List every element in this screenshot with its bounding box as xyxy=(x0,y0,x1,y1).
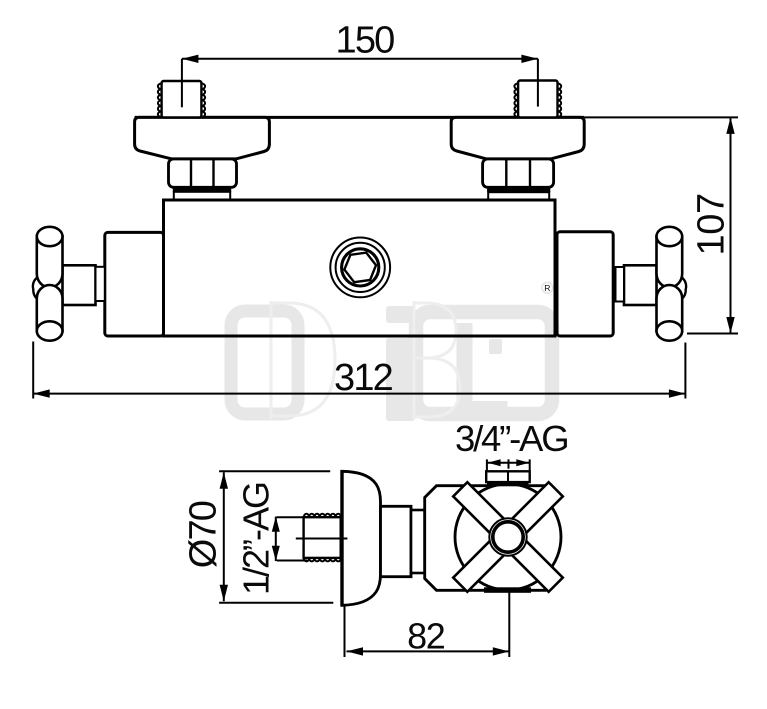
dimension O70 xyxy=(183,471,334,602)
watermark letter i dot xyxy=(386,306,415,323)
dimension 3/4-AG xyxy=(455,418,567,470)
centerline stud right xyxy=(537,59,539,107)
wire wall line xyxy=(135,116,585,119)
cross handle blade B xyxy=(453,482,563,592)
dimension 312 xyxy=(33,342,685,400)
handle right hub xyxy=(616,265,687,305)
thread 3/4 stub xyxy=(486,471,530,482)
valve housing (side) xyxy=(425,486,545,591)
valve cap left xyxy=(105,232,164,336)
escutcheon bell xyxy=(342,471,381,605)
joint band top xyxy=(487,482,529,487)
valve cap right xyxy=(557,232,613,336)
watermark letter i bar xyxy=(386,338,415,421)
svg-text:312: 312 xyxy=(334,357,393,399)
cross handle blade A xyxy=(453,482,563,592)
cross handle hub xyxy=(489,518,526,555)
thread 1/2 stub xyxy=(304,514,341,562)
screw hex socket xyxy=(344,253,376,283)
svg-text:82: 82 xyxy=(407,616,445,657)
watermark apostrophe xyxy=(489,339,502,354)
escutcheon wall face xyxy=(340,470,343,606)
rosette circle xyxy=(455,484,561,590)
washer band left xyxy=(173,187,231,192)
screw cap circles xyxy=(330,238,390,298)
nut right xyxy=(483,159,554,187)
dimension 1/2-AG xyxy=(235,483,307,595)
watermark thin letter D xyxy=(271,301,335,419)
sleeve step xyxy=(411,510,425,573)
svg-text:1/2”-AG: 1/2”-AG xyxy=(235,483,276,595)
flange left xyxy=(135,117,270,158)
washer band right xyxy=(487,188,550,193)
body xyxy=(164,200,556,336)
watermark registered mark xyxy=(542,282,553,293)
washer right xyxy=(488,192,549,200)
sleeve cylinder xyxy=(381,506,412,576)
watermark logo frame 2 xyxy=(416,312,552,414)
watermark thin letter B xyxy=(414,301,460,419)
svg-text:150: 150 xyxy=(335,20,394,62)
handle right lower bar xyxy=(657,285,683,341)
handle left hub xyxy=(33,265,105,305)
handle right upper bar xyxy=(657,227,683,288)
flange right xyxy=(451,117,584,158)
nut left xyxy=(169,159,237,187)
dimension 107 xyxy=(584,117,738,333)
svg-text:R: R xyxy=(544,283,550,293)
svg-text:3/4”-AG: 3/4”-AG xyxy=(455,418,567,459)
joint band bottom xyxy=(484,587,531,593)
dimension 150 xyxy=(182,20,538,64)
watermark logo frame 1 xyxy=(231,311,298,414)
handle left upper bar xyxy=(37,227,63,288)
handle left lower bar xyxy=(37,285,63,341)
dimension 82 xyxy=(345,592,510,658)
stud left xyxy=(158,81,205,117)
svg-text:107: 107 xyxy=(691,193,733,255)
svg-text:Ø70: Ø70 xyxy=(183,501,225,568)
centerline stud left xyxy=(181,59,183,108)
washer left xyxy=(174,192,230,200)
stud right xyxy=(514,81,561,118)
watermark letter L xyxy=(457,323,508,416)
centerline 1/2 stub xyxy=(296,538,348,540)
